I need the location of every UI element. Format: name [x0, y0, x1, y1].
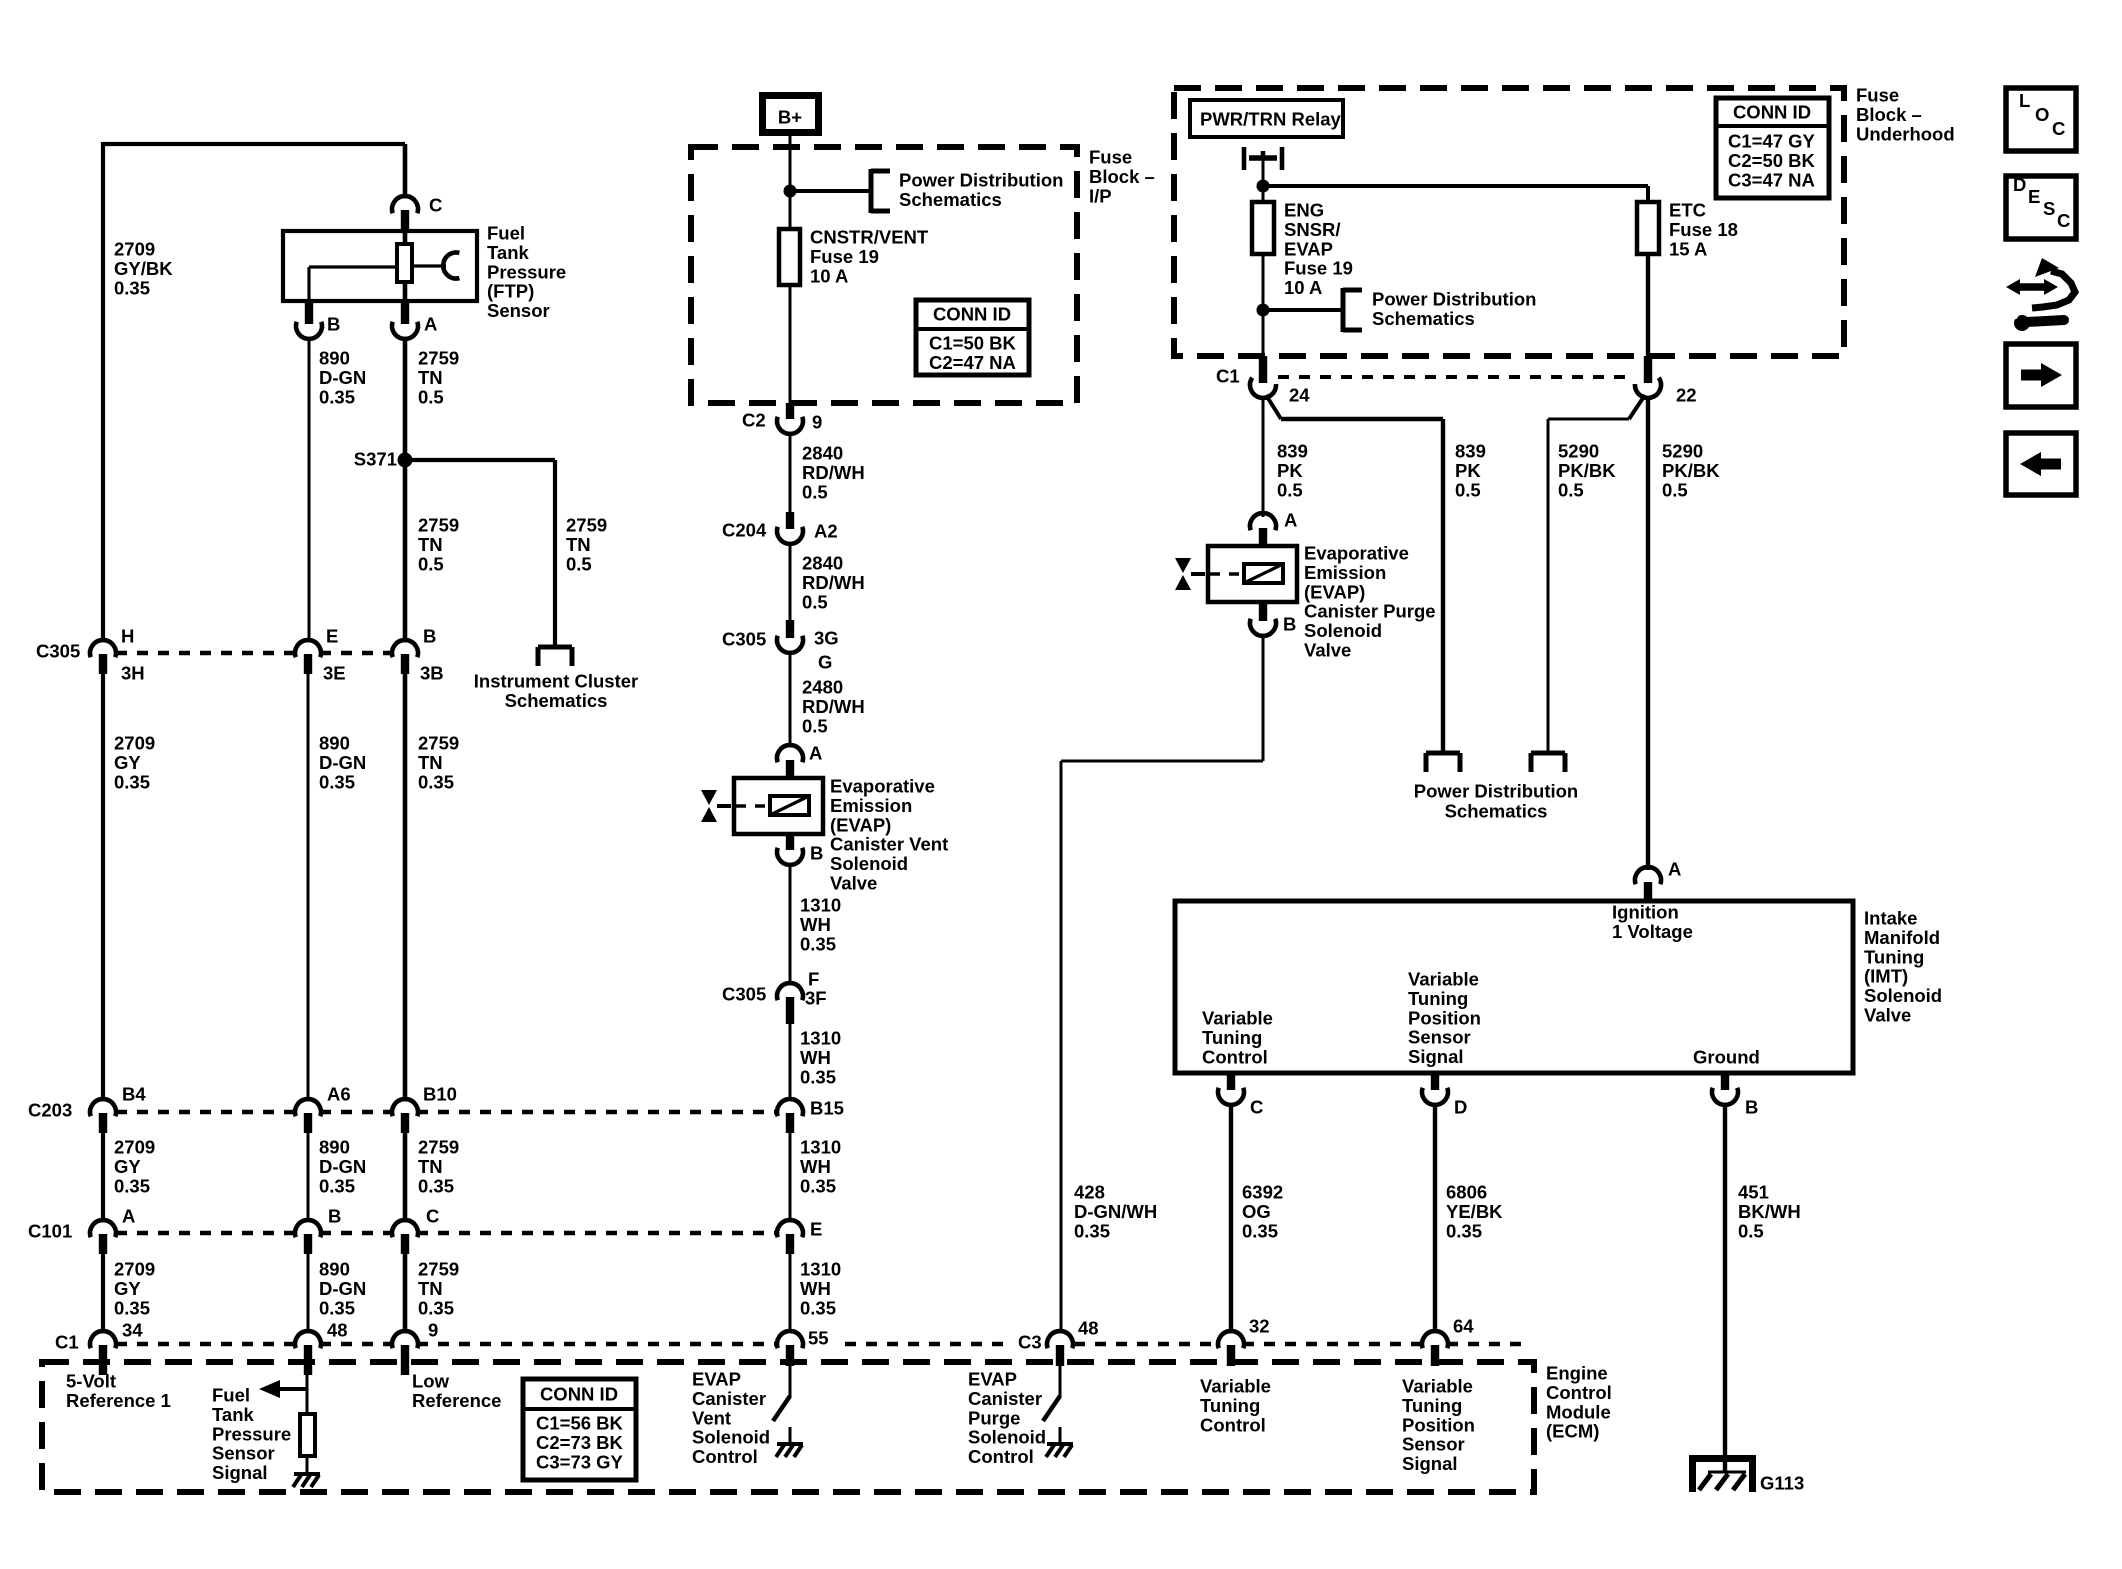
CONN ID title underhood — [1733, 102, 1811, 123]
svg-text:B: B — [423, 626, 436, 647]
svg-text:Sensor: Sensor — [1402, 1434, 1465, 1455]
svg-text:2759: 2759 — [418, 515, 459, 536]
svg-text:890: 890 — [319, 348, 350, 369]
svg-text:0.35: 0.35 — [418, 771, 454, 792]
svg-text:Fuel: Fuel — [487, 223, 525, 244]
connector C3 pin 64 — [1422, 1331, 1448, 1366]
wire label 2709 GY 0.35 lower — [114, 1259, 155, 1319]
wire label 890 D-GN 0.35 lower — [319, 1259, 366, 1319]
svg-text:24: 24 — [1289, 385, 1310, 406]
svg-text:Signal: Signal — [1402, 1453, 1458, 1474]
svg-text:Pressure: Pressure — [212, 1423, 291, 1444]
svg-text:0.5: 0.5 — [1455, 479, 1481, 500]
svg-text:Sensor: Sensor — [212, 1443, 275, 1464]
svg-text:(EVAP): (EVAP) — [830, 814, 891, 835]
svg-text:B: B — [1283, 614, 1296, 635]
svg-text:Fuse 18: Fuse 18 — [1669, 219, 1738, 240]
svg-text:B: B — [1745, 1097, 1758, 1118]
svg-text:Valve: Valve — [1304, 640, 1351, 661]
svg-text:C2: C2 — [742, 410, 766, 431]
svg-text:5290: 5290 — [1662, 441, 1703, 462]
svg-text:Control: Control — [1200, 1414, 1266, 1435]
svg-text:(IMT): (IMT) — [1864, 966, 1908, 987]
wire 2759 TN C305 to C203 — [403, 674, 408, 1100]
wire 2840 RD/WH upper — [789, 432, 792, 512]
power distribution bracket 5290 — [1531, 753, 1565, 772]
relay label PWR/TRN Relay — [1200, 109, 1342, 130]
svg-text:32: 32 — [1249, 1316, 1270, 1337]
svg-text:(ECM): (ECM) — [1546, 1421, 1599, 1442]
svg-text:EVAP: EVAP — [692, 1369, 741, 1390]
svg-text:C3=47 NA: C3=47 NA — [1728, 169, 1815, 190]
svg-text:3B: 3B — [420, 663, 444, 684]
ECM dashed box — [42, 1362, 1534, 1492]
pin label 48 — [327, 1320, 348, 1341]
svg-text:RD/WH: RD/WH — [802, 696, 865, 717]
svg-text:B10: B10 — [423, 1084, 457, 1105]
svg-text:Engine: Engine — [1546, 1363, 1608, 1384]
cavity label E — [326, 626, 338, 647]
pin label 9 — [428, 1320, 438, 1341]
connector C1 underhood pin 22 — [1634, 356, 1664, 401]
wire label 1310 WH 0.35 mid — [800, 1137, 841, 1197]
pin label B — [327, 314, 340, 335]
svg-text:Variable: Variable — [1200, 1376, 1271, 1397]
ECM internal arrow — [259, 1380, 308, 1398]
svg-text:2480: 2480 — [802, 677, 843, 698]
svg-text:PK/BK: PK/BK — [1662, 460, 1720, 481]
svg-text:(EVAP): (EVAP) — [1304, 581, 1365, 602]
FTP internal wiper line — [309, 267, 397, 301]
svg-text:S: S — [2043, 198, 2055, 219]
connector C305 cavity H — [90, 640, 116, 674]
svg-text:C2=47 NA: C2=47 NA — [929, 352, 1016, 373]
CONN ID rows I/P — [929, 333, 1017, 373]
ground label G113 — [1760, 1473, 1804, 1494]
svg-text:0.5: 0.5 — [418, 386, 444, 407]
svg-text:WH: WH — [800, 1156, 831, 1177]
instrument cluster termination bracket — [538, 647, 572, 666]
cavity label E — [810, 1219, 822, 1240]
svg-text:Manifold: Manifold — [1864, 927, 1940, 948]
fuse label CNSTR/VENT Fuse 19 10 A — [810, 227, 929, 287]
svg-text:2759: 2759 — [566, 515, 607, 536]
ECM function Fuel Tank Pressure Sensor Signal — [212, 1385, 291, 1484]
svg-text:C: C — [2057, 210, 2070, 231]
svg-text:Evaporative: Evaporative — [1304, 543, 1409, 564]
connector C203 cavity A6 — [295, 1099, 321, 1133]
wire label 2759 TN 0.5 below splice — [418, 515, 459, 575]
wire 2759 TN below splice — [403, 460, 408, 641]
svg-text:TN: TN — [418, 752, 443, 773]
component label Fuel Tank Pressure (FTP) Sensor — [487, 223, 566, 322]
svg-text:D-GN: D-GN — [319, 367, 366, 388]
svg-text:2840: 2840 — [802, 553, 843, 574]
svg-text:0.35: 0.35 — [1074, 1220, 1110, 1241]
svg-text:PK: PK — [1455, 460, 1481, 481]
wire 2759 TN C101 to C1 — [403, 1254, 408, 1332]
svg-text:0.35: 0.35 — [1446, 1220, 1482, 1241]
svg-text:Pressure: Pressure — [487, 261, 566, 282]
svg-text:PK/BK: PK/BK — [1558, 460, 1616, 481]
svg-text:CNSTR/VENT: CNSTR/VENT — [810, 227, 929, 248]
svg-text:Tuning: Tuning — [1408, 988, 1468, 1009]
IMT terminal Variable Tuning Position Sensor Signal — [1408, 969, 1481, 1068]
wire ETC fuse feed — [1646, 186, 1650, 202]
ECM function EVAP Canister Purge Solenoid Control — [968, 1369, 1046, 1468]
svg-text:B4: B4 — [122, 1084, 146, 1105]
svg-text:G: G — [818, 652, 832, 673]
svg-text:48: 48 — [327, 1320, 348, 1341]
FTP sensor box — [283, 231, 477, 301]
pin label D IMT — [1454, 1097, 1467, 1118]
svg-text:Variable: Variable — [1402, 1376, 1473, 1397]
wire 428 D-GN/WH purge to ECM — [1061, 636, 1263, 1332]
wire label 2759 TN 0.35 upper — [418, 733, 459, 793]
svg-text:RD/WH: RD/WH — [802, 572, 865, 593]
svg-text:839: 839 — [1277, 441, 1308, 462]
svg-text:S371: S371 — [354, 449, 397, 470]
svg-text:890: 890 — [319, 1137, 350, 1158]
svg-text:C2=73 BK: C2=73 BK — [536, 1432, 624, 1453]
IMT terminal Variable Tuning Control — [1202, 1008, 1273, 1068]
Fuse Block Underhood dashed box — [1174, 88, 1844, 356]
ECM function Variable Tuning Position Sensor Signal — [1402, 1376, 1475, 1475]
connector label C305 — [36, 641, 80, 662]
wire 890 D-GN C203 to C101 — [307, 1133, 310, 1221]
EVAP canister purge solenoid valve — [1175, 546, 1297, 602]
svg-text:Control: Control — [1202, 1046, 1268, 1067]
IMT terminal Ignition 1 Voltage — [1612, 902, 1693, 942]
svg-text:0.5: 0.5 — [418, 553, 444, 574]
wire 2759 TN C203 to C101 — [403, 1133, 408, 1221]
connector C2 pin 9 pinbar — [786, 403, 794, 419]
svg-text:PK: PK — [1277, 460, 1303, 481]
cavity label B10 — [423, 1084, 457, 1105]
cavity label B4 — [122, 1084, 146, 1105]
svg-text:TN: TN — [418, 1278, 443, 1299]
cavity label A — [122, 1206, 135, 1227]
connector row C101 dashed line — [116, 1231, 778, 1235]
svg-text:0.5: 0.5 — [1738, 1220, 1764, 1241]
wire 6392 OG — [1229, 1105, 1233, 1332]
wire split diagonal 22 — [1629, 395, 1645, 419]
connector C1 underhood pin 24 — [1247, 356, 1277, 401]
svg-text:0.35: 0.35 — [114, 1175, 150, 1196]
svg-text:Tuning: Tuning — [1864, 946, 1924, 967]
svg-text:0.35: 0.35 — [319, 1175, 355, 1196]
svg-text:Fuel: Fuel — [212, 1385, 250, 1406]
connector A IMT valve — [1635, 867, 1661, 901]
fuse ENG SNSR/EVAP Fuse 19 10A — [1252, 202, 1274, 254]
svg-text:ENG: ENG — [1284, 200, 1324, 221]
pin label 9 C2 — [812, 412, 822, 433]
svg-text:D: D — [2013, 174, 2026, 195]
svg-text:B: B — [810, 843, 823, 864]
svg-text:Signal: Signal — [1408, 1046, 1464, 1067]
svg-text:451: 451 — [1738, 1182, 1769, 1203]
EVAP canister vent solenoid valve — [701, 778, 823, 834]
svg-text:C: C — [1250, 1097, 1263, 1118]
svg-text:48: 48 — [1078, 1318, 1099, 1339]
pin label 55 — [808, 1328, 829, 1349]
svg-text:6392: 6392 — [1242, 1182, 1283, 1203]
connector label C3 — [1018, 1332, 1042, 1353]
power feed B+ label — [778, 106, 802, 127]
svg-text:C2=50 BK: C2=50 BK — [1728, 150, 1816, 171]
connector C3 pin 32 — [1218, 1331, 1244, 1366]
connector C204 pin A2 — [777, 512, 803, 544]
wire 1310 WH C305F to B15 — [789, 1024, 792, 1099]
connector C3 pin 48 — [1047, 1331, 1073, 1366]
svg-text:D-GN: D-GN — [319, 1156, 366, 1177]
wire 2709 GY C203 to C101 — [101, 1133, 105, 1221]
svg-text:O: O — [2035, 104, 2049, 125]
splice S371 — [398, 453, 413, 468]
svg-text:2840: 2840 — [802, 443, 843, 464]
svg-text:Schematics: Schematics — [899, 189, 1002, 210]
connector C101 cavity C — [392, 1220, 418, 1254]
svg-text:Low: Low — [412, 1371, 450, 1392]
cavity label B — [423, 626, 436, 647]
svg-text:D: D — [1454, 1097, 1467, 1118]
wire label 1310 WH 0.35 lower — [800, 1259, 841, 1319]
connector label C305 F — [722, 984, 766, 1005]
wire label 5290 PK/BK 0.5 first — [1558, 441, 1616, 501]
svg-text:2759: 2759 — [418, 1137, 459, 1158]
svg-text:2709: 2709 — [114, 239, 155, 260]
svg-text:1310: 1310 — [800, 1028, 841, 1049]
pin label 24 — [1289, 385, 1310, 406]
pin label A vent — [809, 743, 822, 764]
svg-text:GY: GY — [114, 752, 141, 773]
svg-text:C1=56 BK: C1=56 BK — [536, 1413, 624, 1434]
wire 1310 WH valve to C305F — [789, 865, 792, 985]
pin label A purge — [1284, 510, 1297, 531]
svg-text:Fuse: Fuse — [1089, 147, 1132, 168]
connector B purge valve — [1250, 602, 1276, 636]
cavity label 3G — [814, 628, 839, 649]
pin label C IMT — [1250, 1097, 1263, 1118]
pin label 32 — [1249, 1316, 1270, 1337]
wire label 890 D-GN 0.35 mid — [319, 1137, 366, 1197]
svg-text:0.5: 0.5 — [802, 715, 828, 736]
svg-text:Position: Position — [1402, 1414, 1475, 1435]
connector C203 cavity B10 — [392, 1099, 418, 1133]
svg-text:CONN ID: CONN ID — [1733, 102, 1811, 123]
ECM CONN ID box — [523, 1379, 636, 1480]
cavity label 3B — [420, 663, 444, 684]
CONN ID rows underhood — [1728, 131, 1816, 191]
pin label A2 — [814, 521, 838, 542]
relay contact symbol — [1244, 147, 1282, 170]
svg-text:CONN ID: CONN ID — [933, 304, 1011, 325]
svg-text:0.35: 0.35 — [418, 1297, 454, 1318]
wire label 2840 RD/WH 0.5 lower — [802, 553, 865, 613]
svg-text:2759: 2759 — [418, 733, 459, 754]
svg-text:0.35: 0.35 — [319, 386, 355, 407]
svg-text:Block –: Block – — [1089, 166, 1155, 187]
wire label 2709 GY/BK 0.35 — [114, 239, 173, 299]
pin label 48 C3 — [1078, 1318, 1099, 1339]
svg-text:EVAP: EVAP — [968, 1369, 1017, 1390]
svg-text:C101: C101 — [28, 1221, 72, 1242]
connector label C1 underhood — [1216, 366, 1240, 387]
svg-text:0.35: 0.35 — [319, 1297, 355, 1318]
wire 839 PK jog — [1281, 419, 1443, 751]
icon DESC box — [2006, 174, 2076, 239]
junction node in I/P block — [784, 185, 797, 198]
svg-text:64: 64 — [1453, 1316, 1474, 1337]
svg-text:5-Volt: 5-Volt — [66, 1371, 116, 1392]
svg-text:Fuse 19: Fuse 19 — [1284, 258, 1353, 279]
svg-text:A: A — [1668, 859, 1681, 880]
ECM driver switch and ground for purge solenoid — [1043, 1366, 1073, 1457]
svg-text:C3: C3 — [1018, 1332, 1042, 1353]
cavity label B — [328, 1206, 341, 1227]
svg-text:E: E — [2028, 186, 2040, 207]
svg-text:Tank: Tank — [487, 242, 530, 263]
ECM label Engine Control Module (ECM) — [1546, 1363, 1612, 1442]
component label EVAP Canister Purge Solenoid Valve — [1304, 543, 1436, 661]
svg-text:10 A: 10 A — [810, 265, 848, 286]
svg-text:0.35: 0.35 — [114, 1297, 150, 1318]
svg-text:GY/BK: GY/BK — [114, 258, 173, 279]
ECM driver switch and ground for vent solenoid — [773, 1366, 803, 1457]
pin label C — [429, 195, 442, 216]
fuse CNSTR/VENT Fuse 19 10A — [779, 229, 800, 285]
ECM function Variable Tuning Control — [1200, 1376, 1271, 1436]
PWR/TRN Relay box — [1190, 100, 1343, 137]
svg-text:0.5: 0.5 — [566, 553, 592, 574]
pin label 22 — [1676, 385, 1697, 406]
svg-text:Power Distribution: Power Distribution — [1372, 289, 1536, 310]
wire 2759 TN from pin A — [403, 338, 408, 460]
wire label 1310 WH 0.35 upper — [800, 895, 841, 955]
wire relay to ENG fuse — [1262, 158, 1265, 202]
svg-text:C1=47 GY: C1=47 GY — [1728, 131, 1816, 152]
wire label 2759 TN 0.35 mid — [418, 1137, 459, 1197]
wire label 2709 GY 0.35 mid — [114, 1137, 155, 1197]
svg-text:5290: 5290 — [1558, 441, 1599, 462]
wire B+ to fuse — [789, 132, 792, 229]
ECM internal resistor ground — [293, 1456, 320, 1487]
svg-text:C305: C305 — [36, 641, 80, 662]
icon back arrow box — [2006, 433, 2076, 495]
svg-text:9: 9 — [428, 1320, 438, 1341]
svg-text:0.35: 0.35 — [800, 1175, 836, 1196]
svg-text:839: 839 — [1455, 441, 1486, 462]
pin label 64 — [1453, 1316, 1474, 1337]
connector C1 pin 55 — [777, 1331, 803, 1366]
wire 890 D-GN C305 to C203 — [307, 674, 310, 1100]
connector label C1 — [55, 1332, 79, 1353]
svg-text:SNSR/: SNSR/ — [1284, 219, 1341, 240]
svg-text:Tuning: Tuning — [1200, 1395, 1260, 1416]
svg-text:3H: 3H — [121, 663, 145, 684]
wire 890 D-GN from pin B — [308, 338, 311, 641]
cavity label 3F — [805, 988, 827, 1009]
svg-text:22: 22 — [1676, 385, 1697, 406]
connector C IMT valve — [1218, 1073, 1244, 1105]
wire 2759 TN branch to instrument cluster — [405, 460, 555, 645]
svg-text:Sensor: Sensor — [1408, 1027, 1471, 1048]
wire 6806 YE/BK — [1433, 1105, 1437, 1332]
svg-text:H: H — [121, 626, 134, 647]
svg-text:0.35: 0.35 — [800, 933, 836, 954]
connector label C203 — [28, 1100, 72, 1121]
svg-text:B: B — [327, 314, 340, 335]
connector C101 cavity B — [295, 1220, 321, 1254]
svg-text:Power Distribution: Power Distribution — [899, 170, 1063, 191]
fuse label ETC Fuse 18 15 A — [1669, 200, 1738, 260]
connector row C1 C3 dashed line — [116, 1342, 1530, 1346]
pin label B IMT — [1745, 1097, 1758, 1118]
pin label A IMT — [1668, 859, 1681, 880]
component label EVAP Canister Vent Solenoid Valve — [830, 776, 948, 894]
svg-text:F: F — [808, 969, 819, 990]
svg-text:Tuning: Tuning — [1202, 1027, 1262, 1048]
svg-text:C1=50 BK: C1=50 BK — [929, 333, 1017, 354]
svg-text:0.35: 0.35 — [319, 771, 355, 792]
svg-text:A: A — [122, 1206, 135, 1227]
svg-text:0.35: 0.35 — [1242, 1220, 1278, 1241]
wire ENG fuse down — [1262, 254, 1265, 357]
svg-text:3E: 3E — [323, 663, 346, 684]
svg-text:RD/WH: RD/WH — [802, 462, 865, 483]
Fuse Block I/P dashed box — [691, 147, 1077, 403]
connector C203 cavity B4 — [90, 1099, 116, 1133]
pin label B vent — [810, 843, 823, 864]
svg-text:Schematics: Schematics — [1445, 801, 1548, 822]
svg-text:Reference 1: Reference 1 — [66, 1390, 171, 1411]
svg-text:3F: 3F — [805, 988, 827, 1009]
ground G113 symbol — [1689, 1455, 1756, 1492]
component label Intake Manifold Tuning (IMT) Solenoid Valve — [1864, 908, 1942, 1026]
wire split diagonal 24 — [1266, 395, 1281, 419]
svg-text:55: 55 — [808, 1328, 829, 1349]
cavity label A6 — [327, 1084, 351, 1105]
svg-text:15 A: 15 A — [1669, 238, 1707, 259]
splice label S371 — [354, 449, 397, 470]
wire label 2759 TN 0.5 left — [418, 348, 459, 408]
cavity label 3E — [323, 663, 346, 684]
svg-text:D-GN/WH: D-GN/WH — [1074, 1201, 1157, 1222]
svg-text:2709: 2709 — [114, 1137, 155, 1158]
svg-text:C305: C305 — [722, 984, 766, 1005]
svg-text:Instrument Cluster: Instrument Cluster — [474, 671, 638, 692]
icon hand wrench — [2006, 258, 2075, 331]
svg-text:D-GN: D-GN — [319, 1278, 366, 1299]
svg-text:Control: Control — [1546, 1382, 1612, 1403]
cavity label G — [818, 652, 832, 673]
connector C101 cavity A — [90, 1220, 116, 1254]
ECM internal wire to resistor — [306, 1366, 309, 1414]
svg-text:428: 428 — [1074, 1182, 1105, 1203]
svg-text:Intake: Intake — [1864, 908, 1917, 929]
svg-text:Power Distribution: Power Distribution — [1414, 781, 1578, 802]
ECM function EVAP Canister Vent Solenoid Control — [692, 1369, 770, 1468]
svg-text:Emission: Emission — [830, 795, 912, 816]
FTP pressure port arc — [412, 253, 459, 279]
svg-text:Canister Purge: Canister Purge — [1304, 601, 1436, 622]
svg-text:0.35: 0.35 — [800, 1297, 836, 1318]
wire label 890 D-GN 0.35 upper — [319, 733, 366, 793]
ECM internal resistor — [300, 1414, 315, 1456]
connector label C2 — [742, 410, 766, 431]
svg-text:2759: 2759 — [418, 348, 459, 369]
wire label 890 D-GN 0.35 — [319, 348, 366, 408]
